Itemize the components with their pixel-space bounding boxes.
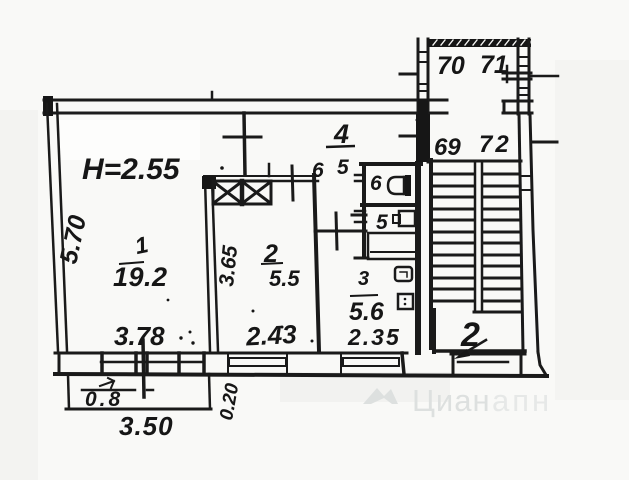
dim 0.8 line xyxy=(82,389,135,392)
svg-text:72: 72 xyxy=(479,131,512,158)
stair landing walls xyxy=(432,310,436,352)
closet in room2 xyxy=(213,181,271,204)
svg-text:71: 71 xyxy=(480,51,508,79)
sink in room 5 xyxy=(399,211,415,226)
wall: kitchen right wall xyxy=(415,164,421,352)
dim vertical heavy line xyxy=(143,340,144,397)
block 70/71: top hatched wall xyxy=(427,39,531,47)
kitchen stove symbol xyxy=(395,267,412,281)
wall junction blob room1/2 top xyxy=(202,176,216,189)
svg-text:апн: апн xyxy=(492,383,552,418)
entrance arrow xyxy=(461,340,486,355)
svg-text:3.50: 3.50 xyxy=(119,411,174,441)
wall: right wall of 70/71 block xyxy=(517,39,520,114)
stairs top line xyxy=(429,160,521,163)
corridor partition above room2 xyxy=(244,113,245,175)
svg-text:5: 5 xyxy=(337,156,349,179)
svg-text:2.35: 2.35 xyxy=(347,324,401,350)
window W1 room1 xyxy=(101,361,203,364)
svg-text:0.8: 0.8 xyxy=(85,388,123,411)
window W2 room2 xyxy=(229,358,286,366)
stairs: left flight steps xyxy=(434,174,474,301)
stairs middle divider xyxy=(474,161,477,311)
svg-text:5.5: 5.5 xyxy=(269,266,300,291)
wall: bottom wall band of apartment xyxy=(55,352,407,355)
wall stub right of top band xyxy=(503,100,532,103)
svg-text:6: 6 xyxy=(312,159,324,182)
toilet in room 6 xyxy=(403,177,406,194)
wall: room2 top wall (double) xyxy=(204,175,318,177)
wall: top outer wall band xyxy=(44,99,447,102)
door tick hall/stairs xyxy=(400,135,419,138)
window W3 kitchen xyxy=(343,358,399,366)
door tick wc xyxy=(355,174,364,177)
wall: stair-left wall upper band (with rungs) xyxy=(417,39,420,162)
door tick kitchen xyxy=(336,213,337,249)
svg-text:3.65: 3.65 xyxy=(215,244,242,287)
kitchen sink symbol xyxy=(398,294,413,309)
tick above top wall a xyxy=(211,92,214,99)
svg-text:6: 6 xyxy=(370,172,382,195)
wall: stair-left band solid part xyxy=(416,114,430,162)
external line right xyxy=(533,141,557,144)
door tick room2 xyxy=(292,166,293,200)
svg-text:19.2: 19.2 xyxy=(113,262,168,292)
bathroom block: top wall xyxy=(361,162,421,166)
balcony outline xyxy=(68,375,69,409)
door tick block70 left xyxy=(400,73,415,76)
wall: room2/hall divider xyxy=(314,175,319,351)
wall: left outer wall (double, skewed) xyxy=(47,104,58,351)
bathtub xyxy=(368,233,417,259)
svg-text:5.6: 5.6 xyxy=(349,298,385,326)
bathroom block: left wall xyxy=(362,164,366,257)
svg-text:69: 69 xyxy=(434,134,461,161)
svg-text:3.78: 3.78 xyxy=(114,321,165,351)
right inner stair wall xyxy=(519,114,523,352)
svg-text:5: 5 xyxy=(376,211,388,234)
wall: stair-left wall lower xyxy=(429,160,433,348)
stairs: right flight steps xyxy=(484,174,519,301)
wall: hall/kitchen divider xyxy=(315,230,366,233)
wall stub left of tub xyxy=(355,257,368,260)
speckles xyxy=(252,310,255,313)
wall stub under 71 xyxy=(503,72,531,75)
svg-text:70: 70 xyxy=(437,52,465,80)
svg-text:2.43: 2.43 xyxy=(244,319,298,352)
svg-text:Циан: Циан xyxy=(412,383,491,418)
svg-text:H=2.55: H=2.55 xyxy=(82,153,181,186)
svg-text:2: 2 xyxy=(460,316,480,354)
wall: stairwell bottom window band xyxy=(451,353,525,356)
bathroom divider wall 6/5 xyxy=(362,203,415,207)
svg-text:3: 3 xyxy=(358,268,369,290)
tick above closet right edge xyxy=(268,164,271,176)
watermark xyxy=(363,383,552,418)
wall: room1/room2 divider (double, skewed) xyxy=(205,179,210,351)
svg-text:4: 4 xyxy=(333,119,349,149)
right outer wall lower to bottom corner xyxy=(538,352,546,375)
